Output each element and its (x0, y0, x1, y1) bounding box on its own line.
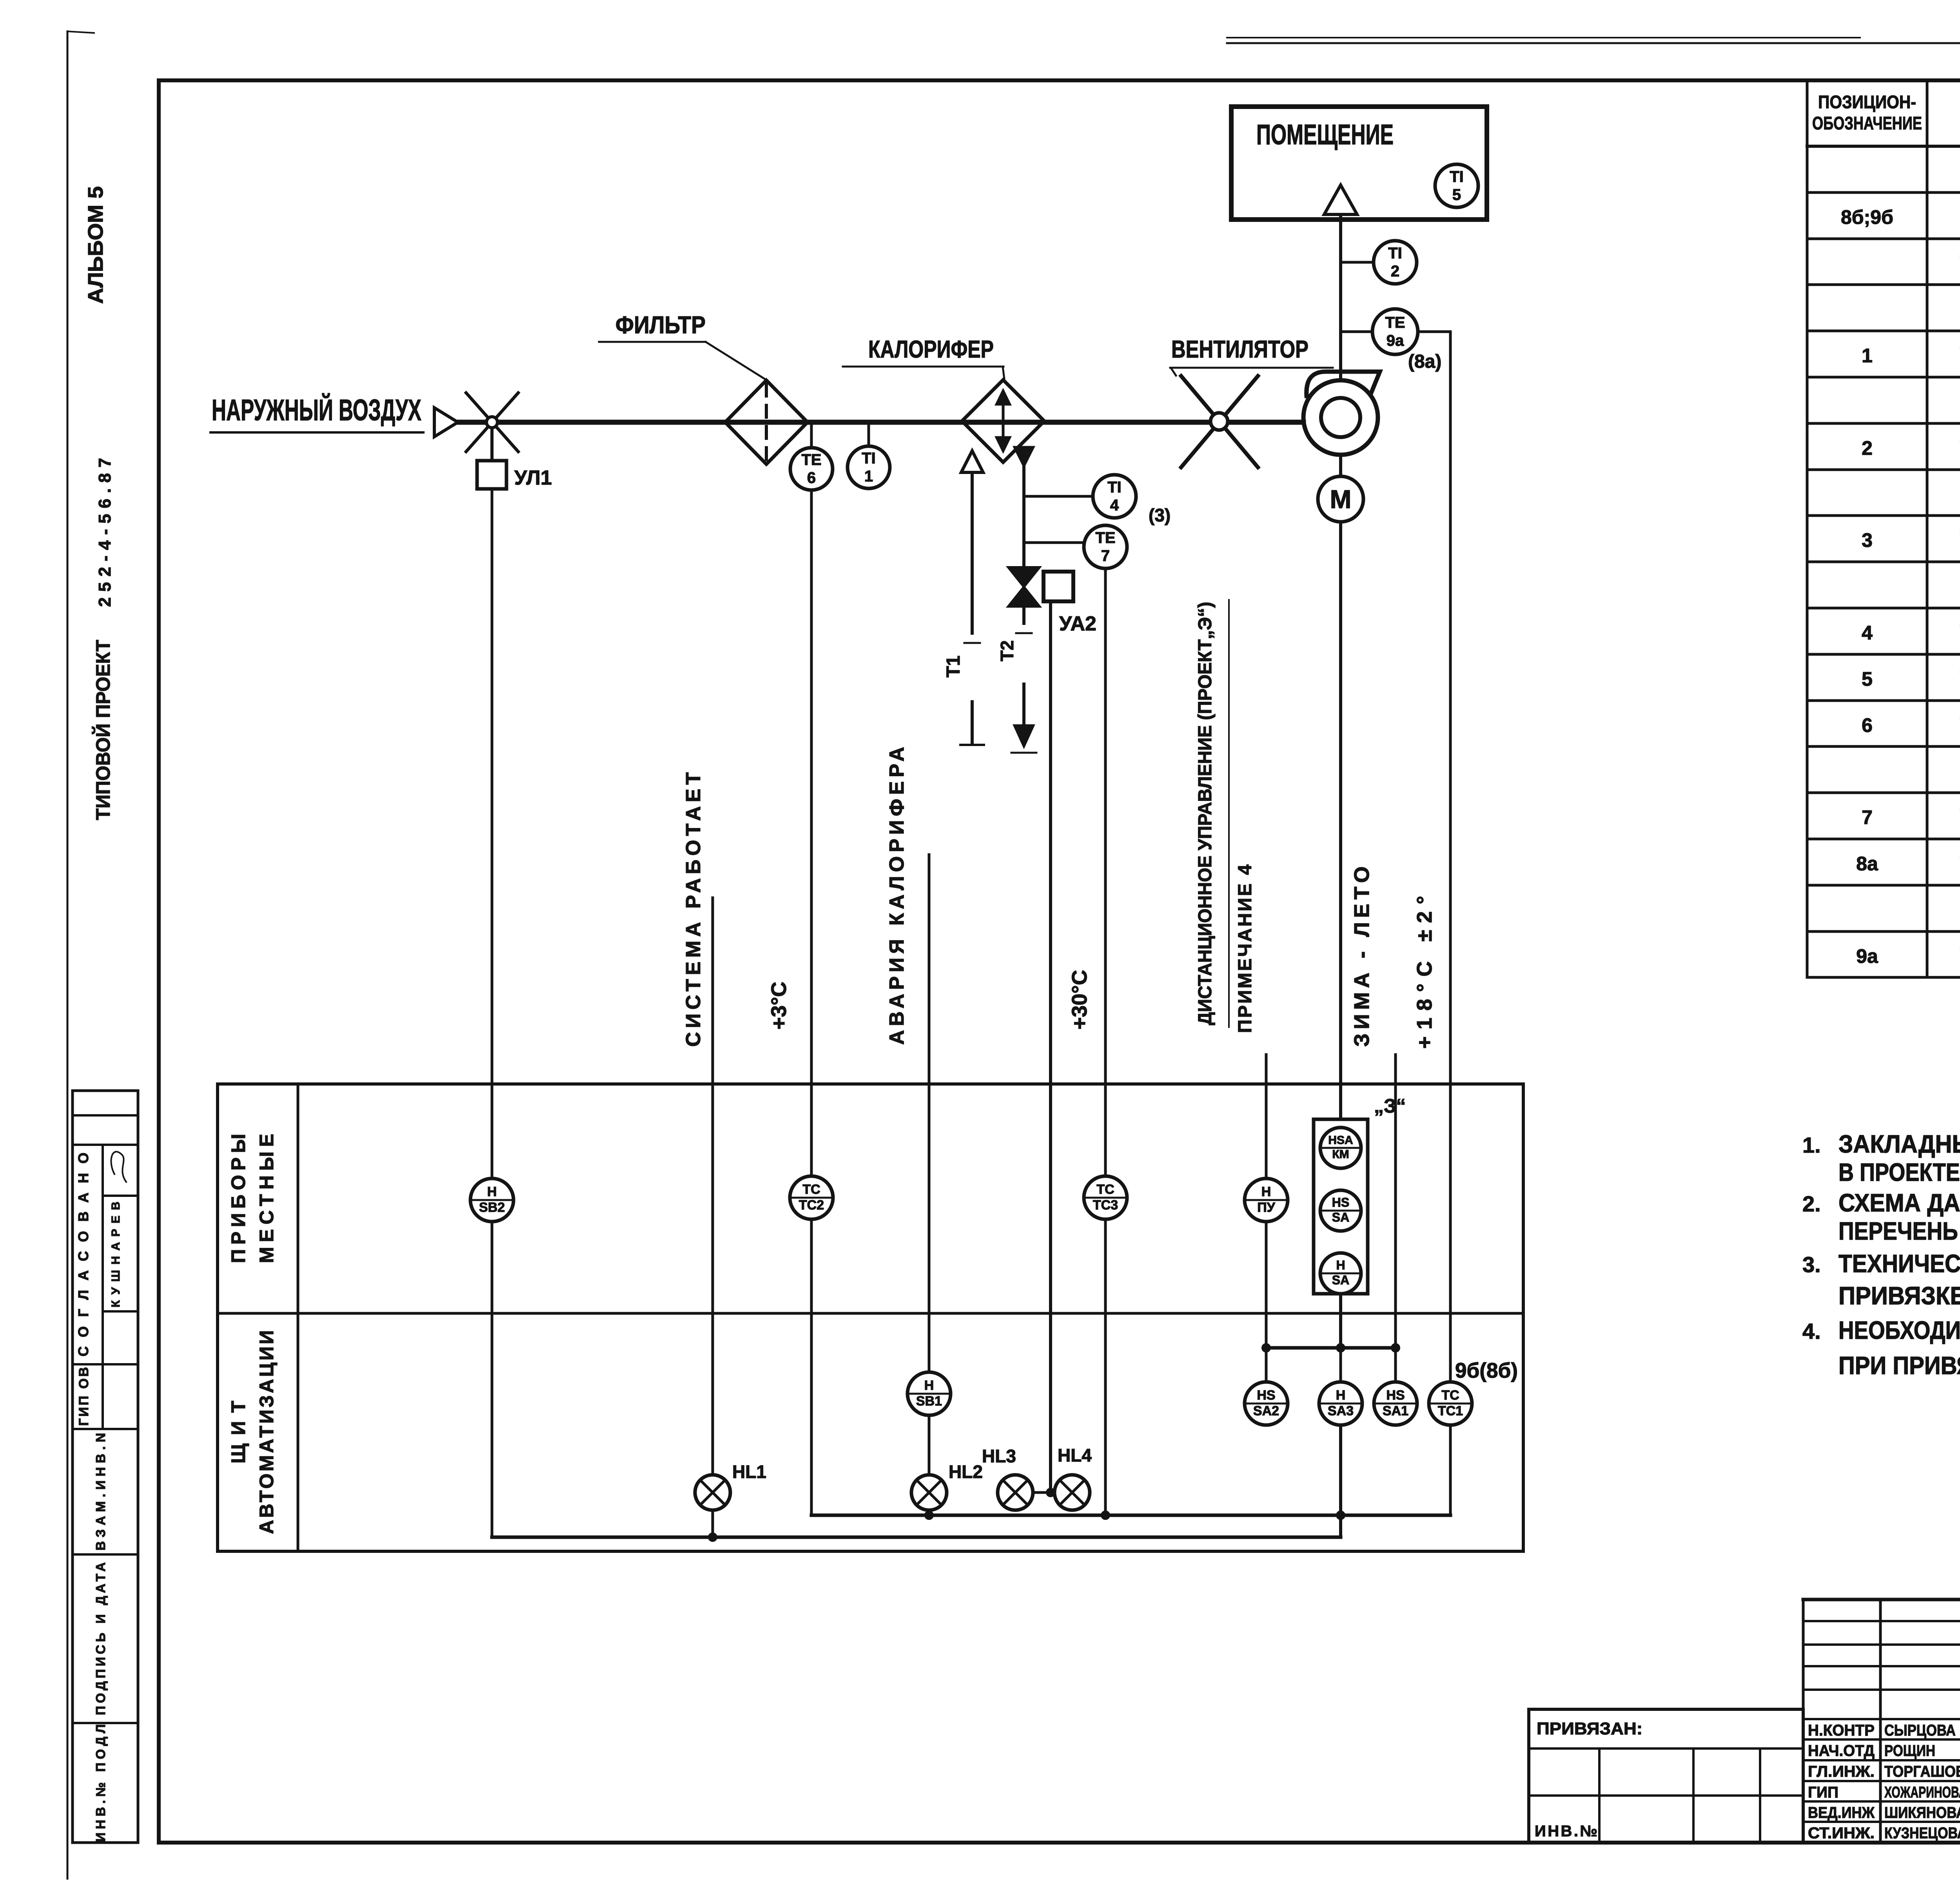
svg-text:ПЕРЕЧЕНЬ ПРИБОРОВ ДАН ДЛЯ 4СИ: ПЕРЕЧЕНЬ ПРИБОРОВ ДАН ДЛЯ 4СИСТЕМ. (1838, 1217, 1960, 1245)
svg-text:5: 5 (1862, 668, 1873, 690)
svg-text:ТОРГАШОВ: ТОРГАШОВ (1884, 1763, 1960, 1780)
svg-text:2: 2 (1391, 263, 1399, 280)
svg-text:ТI: ТI (1107, 479, 1122, 496)
svg-text:7: 7 (1101, 547, 1110, 565)
svg-text:НS: НS (1386, 1388, 1405, 1403)
svg-text:Н: Н (1336, 1388, 1346, 1403)
svg-text:ТИПОВОЙ ПРОЕКТ: ТИПОВОЙ ПРОЕКТ (92, 640, 114, 820)
svg-text:9а: 9а (1387, 332, 1404, 349)
svg-text:8а: 8а (1856, 853, 1878, 875)
svg-text:HL1: HL1 (732, 1462, 766, 1482)
svg-text:ПРИМЕЧАНИЕ 4: ПРИМЕЧАНИЕ 4 (1235, 864, 1256, 1033)
svg-text:ТС2: ТС2 (799, 1198, 824, 1213)
svg-text:SА1: SА1 (1383, 1404, 1408, 1418)
svg-text:Т2: Т2 (997, 640, 1017, 661)
svg-text:ОБОЗНАЧЕНИЕ: ОБОЗНАЧЕНИЕ (1812, 113, 1922, 133)
svg-text:4.: 4. (1802, 1319, 1821, 1344)
svg-text:SВ2: SВ2 (479, 1200, 505, 1215)
svg-text:ТЕ: ТЕ (1385, 314, 1405, 331)
svg-text:М: М (1330, 485, 1352, 514)
svg-text:1.: 1. (1802, 1133, 1821, 1157)
svg-text:УА2: УА2 (1059, 612, 1096, 635)
svg-text:НАРУЖНЫЙ ВОЗДУХ: НАРУЖНЫЙ ВОЗДУХ (212, 393, 421, 427)
svg-text:8б;9б: 8б;9б (1841, 206, 1893, 228)
svg-text:ИНВ.№: ИНВ.№ (1535, 1823, 1597, 1840)
svg-text:ТЕ: ТЕ (801, 451, 821, 468)
svg-text:ЩИТ: ЩИТ (227, 1401, 249, 1463)
svg-text:6: 6 (807, 469, 816, 487)
svg-text:SА3: SА3 (1328, 1404, 1354, 1418)
svg-text:АЛЬБОМ 5: АЛЬБОМ 5 (84, 186, 107, 304)
svg-text:ПОЗИЦИОН-: ПОЗИЦИОН- (1818, 92, 1916, 112)
svg-text:2: 2 (1862, 437, 1873, 459)
svg-text:НS: НS (1257, 1388, 1275, 1403)
svg-text:ГИП: ГИП (1808, 1784, 1838, 1801)
svg-text:4: 4 (1110, 497, 1119, 514)
svg-text:КМ: КМ (1332, 1148, 1349, 1161)
svg-text:SА2: SА2 (1253, 1404, 1279, 1418)
svg-text:ТI: ТI (1450, 168, 1464, 185)
svg-text:ТЕ: ТЕ (1095, 529, 1115, 547)
svg-text:ПРИБОРЫ: ПРИБОРЫ (227, 1134, 249, 1263)
svg-text:+30°С: +30°С (1068, 970, 1091, 1029)
svg-text:HL2: HL2 (949, 1462, 983, 1482)
svg-text:ИНВ.№ ПОДЛ: ИНВ.№ ПОДЛ (93, 1724, 108, 1842)
svg-text:СХЕМА ДАНА ДЛЯ СИСТЕМЫ П1 И А: СХЕМА ДАНА ДЛЯ СИСТЕМЫ П1 И АНАЛОГИЧНА Д… (1838, 1189, 1960, 1217)
svg-text:ТС3: ТС3 (1093, 1198, 1118, 1213)
svg-text:ПРИВЯЗКЕ ПРОЕКТА.: ПРИВЯЗКЕ ПРОЕКТА. (1838, 1282, 1960, 1310)
svg-text:6: 6 (1862, 714, 1873, 736)
svg-text:HL3: HL3 (982, 1446, 1016, 1466)
svg-text:(3): (3) (1149, 505, 1171, 525)
svg-text:SВ1: SВ1 (916, 1394, 942, 1409)
svg-text:ТС: ТС (1441, 1388, 1459, 1403)
svg-text:ВЕНТИЛЯТОР: ВЕНТИЛЯТОР (1171, 336, 1308, 363)
svg-text:ПОМЕЩЕНИЕ: ПОМЕЩЕНИЕ (1256, 119, 1394, 151)
svg-text:ЗАКЛАДНЫЕ КОНСТРУКЦИИ ДЛЯ У: ЗАКЛАДНЫЕ КОНСТРУКЦИИ ДЛЯ УСТАНОВКИ ПРИБ… (1838, 1130, 1960, 1158)
svg-text:УЛ1: УЛ1 (514, 467, 552, 489)
svg-text:ТЕХНИЧЕСКИЕ ХАРАКТЕРИСТИКИ П: ТЕХНИЧЕСКИЕ ХАРАКТЕРИСТИКИ ПРИБОРОВ УТОЧ… (1838, 1249, 1960, 1278)
svg-text:СЫРЦОВА: СЫРЦОВА (1884, 1722, 1956, 1739)
svg-text:ДИСТАНЦИОННОЕ УПРАВЛЕНИЕ (ПРОЕ: ДИСТАНЦИОННОЕ УПРАВЛЕНИЕ (ПРОЕКТ„Э“) (1195, 602, 1216, 1025)
svg-text:СТ.ИНЖ.: СТ.ИНЖ. (1808, 1825, 1875, 1842)
svg-text:1: 1 (1862, 345, 1873, 367)
svg-text:АВАРИЯ КАЛОРИФЕРА: АВАРИЯ КАЛОРИФЕРА (886, 747, 908, 1045)
svg-text:НSА: НSА (1328, 1134, 1353, 1147)
svg-text:1: 1 (864, 468, 873, 485)
svg-text:ВЕД.ИНЖ: ВЕД.ИНЖ (1808, 1804, 1875, 1821)
svg-text:Т1: Т1 (943, 655, 964, 677)
svg-text:ТС1: ТС1 (1438, 1404, 1463, 1418)
svg-text:Н: Н (1261, 1184, 1271, 1199)
svg-text:ПУ: ПУ (1257, 1200, 1275, 1215)
svg-text:3: 3 (1862, 529, 1873, 551)
svg-text:ФИЛЬТР: ФИЛЬТР (615, 312, 706, 339)
svg-text:В ПРОЕКТЕ „ОВ“: В ПРОЕКТЕ „ОВ“ (1838, 1158, 1960, 1186)
svg-text:Н: Н (1336, 1258, 1345, 1272)
svg-text:ТI: ТI (1388, 245, 1402, 262)
svg-text:ГЛ.ИНЖ.: ГЛ.ИНЖ. (1808, 1763, 1875, 1780)
svg-text:„З“: „З“ (1374, 1095, 1406, 1117)
svg-text:(8а): (8а) (1408, 351, 1441, 372)
svg-text:ТС: ТС (1096, 1182, 1114, 1197)
svg-text:HL4: HL4 (1058, 1445, 1092, 1465)
svg-text:Н.КОНТР: Н.КОНТР (1808, 1722, 1875, 1739)
svg-text:9б(8б): 9б(8б) (1455, 1359, 1518, 1382)
svg-text:7: 7 (1862, 806, 1873, 828)
svg-text:2.: 2. (1802, 1191, 1821, 1216)
svg-text:+3°С: +3°С (767, 982, 791, 1029)
svg-text:Н: Н (487, 1184, 497, 1199)
svg-text:4: 4 (1862, 622, 1873, 644)
svg-text:9а: 9а (1856, 945, 1878, 967)
svg-text:КУЗНЕЦОВА: КУЗНЕЦОВА (1884, 1825, 1960, 1842)
svg-text:252-4-56.87: 252-4-56.87 (95, 458, 114, 607)
svg-text:ТI: ТI (862, 450, 876, 467)
svg-text:РОЩИН: РОЩИН (1884, 1742, 1935, 1759)
svg-text:+18°С ±2°: +18°С ±2° (1413, 896, 1436, 1049)
svg-text:ХОЖАРИНОВА: ХОЖАРИНОВА (1884, 1784, 1960, 1801)
svg-text:ШИКЯНОВА: ШИКЯНОВА (1884, 1804, 1960, 1821)
svg-text:НS: НS (1332, 1195, 1349, 1209)
svg-text:ПРИВЯЗАН:: ПРИВЯЗАН: (1537, 1719, 1642, 1738)
svg-text:5: 5 (1452, 186, 1461, 203)
svg-text:КАЛОРИФЕР: КАЛОРИФЕР (868, 336, 994, 363)
svg-text:НЕОБХОДИМОСТЬ ДИСТАНЦИОННОГО: НЕОБХОДИМОСТЬ ДИСТАНЦИОННОГО УПРАВЛЕНИЯ … (1838, 1316, 1960, 1344)
svg-text:SА: SА (1332, 1273, 1349, 1287)
svg-text:НАЧ.ОТД: НАЧ.ОТД (1808, 1742, 1875, 1759)
svg-text:SА: SА (1332, 1210, 1349, 1224)
svg-text:ЗИМА - ЛЕТО: ЗИМА - ЛЕТО (1350, 866, 1374, 1047)
svg-text:ПРИ ПРИВЯЗКЕ ПРОЕКТА.: ПРИ ПРИВЯЗКЕ ПРОЕКТА. (1838, 1351, 1960, 1380)
svg-text:Н: Н (924, 1378, 934, 1393)
svg-text:ТС: ТС (802, 1182, 820, 1197)
svg-text:3.: 3. (1802, 1252, 1821, 1277)
